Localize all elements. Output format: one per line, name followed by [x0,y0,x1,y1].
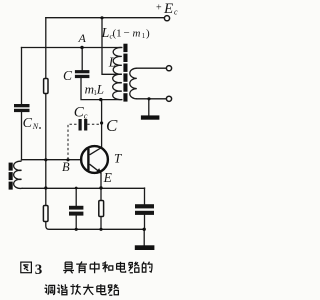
wire C branch lower [81,78,101,100]
label Lc(1-m1) [101,26,151,41]
capacitor C plates [75,70,90,78]
svg-text:−: − [124,27,130,39]
primary winding L upper [113,47,122,74]
char you [76,262,87,274]
char zhong [90,262,99,274]
wire secondary bottom to terminal [137,98,166,100]
char dian2 [97,284,106,294]
wire node A line [22,47,122,49]
node bottom line R2 dot [44,186,47,189]
char da [83,284,93,295]
node top rail tank dot [100,16,103,19]
wire CE stubs [144,188,146,229]
transistor collector lead [90,147,102,154]
svg-text:E: E [103,170,113,185]
capacitor C2 bypass plates [69,206,83,216]
svg-text:C: C [63,68,73,83]
dashed wires Cc phantom [68,124,102,159]
svg-text:(1: (1 [113,28,122,40]
ground stub right of secondary [148,99,150,116]
svg-text:c: c [84,111,88,121]
node bottom line C2 dot [75,187,78,190]
node tank bottom dot [99,98,102,101]
wire CN branch [21,48,23,161]
wire primary bottom to node [101,99,122,101]
svg-text:c: c [174,8,178,17]
svg-text:3: 3 [35,262,43,278]
node rail C2 dot [75,228,78,231]
caption line2: 调谐放大电路 [44,284,118,295]
node base/R1 dot [44,158,47,161]
wire collector vertical [101,100,103,147]
ground bar bottom [135,245,155,250]
char ju [63,262,74,273]
transistor emitter lead with arrow [90,164,102,173]
svg-text:L: L [108,54,117,69]
svg-text:m: m [133,28,141,40]
wire top rail Ec [46,17,164,19]
wire tank tap branch [102,18,121,75]
caption line1: 图 3 具有中和电路的 [21,262,152,278]
input coil core [9,163,13,190]
wire base line [22,159,82,161]
capacitor CE plates [135,204,154,215]
node collector/Cc dot [100,121,103,124]
ground bar right of secondary [141,115,160,119]
node rail CE dot [143,228,146,231]
wire secondary top to terminal [137,67,166,69]
svg-text:): ) [146,28,150,40]
svg-text:B: B [62,160,70,174]
char de [142,262,152,272]
svg-text:C: C [23,116,33,131]
transistor base bar [87,149,89,171]
capacitor CN plates [14,104,30,112]
wire emitter vertical [100,173,102,229]
label m1L [85,81,104,97]
svg-text:N: N [32,122,39,131]
wire C branch upper [81,48,83,71]
char he [102,262,113,273]
char diao [44,285,54,295]
label Cc [74,105,88,121]
secondary winding [130,68,137,99]
ground stub bottom [143,229,145,245]
svg-text:C: C [106,116,118,135]
resistor R2 [43,206,48,222]
svg-text:A: A [78,31,87,45]
node rail R3 dot [99,228,102,231]
label CN [23,116,41,131]
terminal out bottom [166,96,171,101]
char lu [129,262,139,273]
svg-text:T: T [114,151,122,166]
wire bypass cap stubs [75,188,77,229]
node A dot [80,46,83,49]
resistor R3 [99,201,104,217]
char dian [117,262,126,272]
svg-text:E: E [163,1,173,17]
wire R1 branch vertical [45,18,47,206]
node secondary ground dot [147,97,150,100]
transistor T circle [81,146,108,173]
svg-text:+: + [156,3,162,14]
capacitor Cc plates (vertical) [79,119,88,131]
node base/Cc dot [66,158,69,161]
terminal out top [166,66,171,71]
terminal +Ec [164,16,169,21]
primary winding m1L lower [113,74,122,99]
input coil winding [14,161,23,188]
junction node dots [44,16,150,231]
wire bottom line (coil bottom to CE) [23,187,145,189]
wire ground rail [46,222,144,230]
char fang [70,284,80,294]
label +Ec [156,1,178,17]
svg-text:L: L [96,81,104,96]
svg-text:L: L [101,26,110,41]
node emitter dot [99,186,102,189]
char xie [57,284,67,295]
resistor R1 [44,79,48,94]
char tu [21,262,32,273]
transformer core [123,44,127,102]
char lu2 [108,284,118,295]
